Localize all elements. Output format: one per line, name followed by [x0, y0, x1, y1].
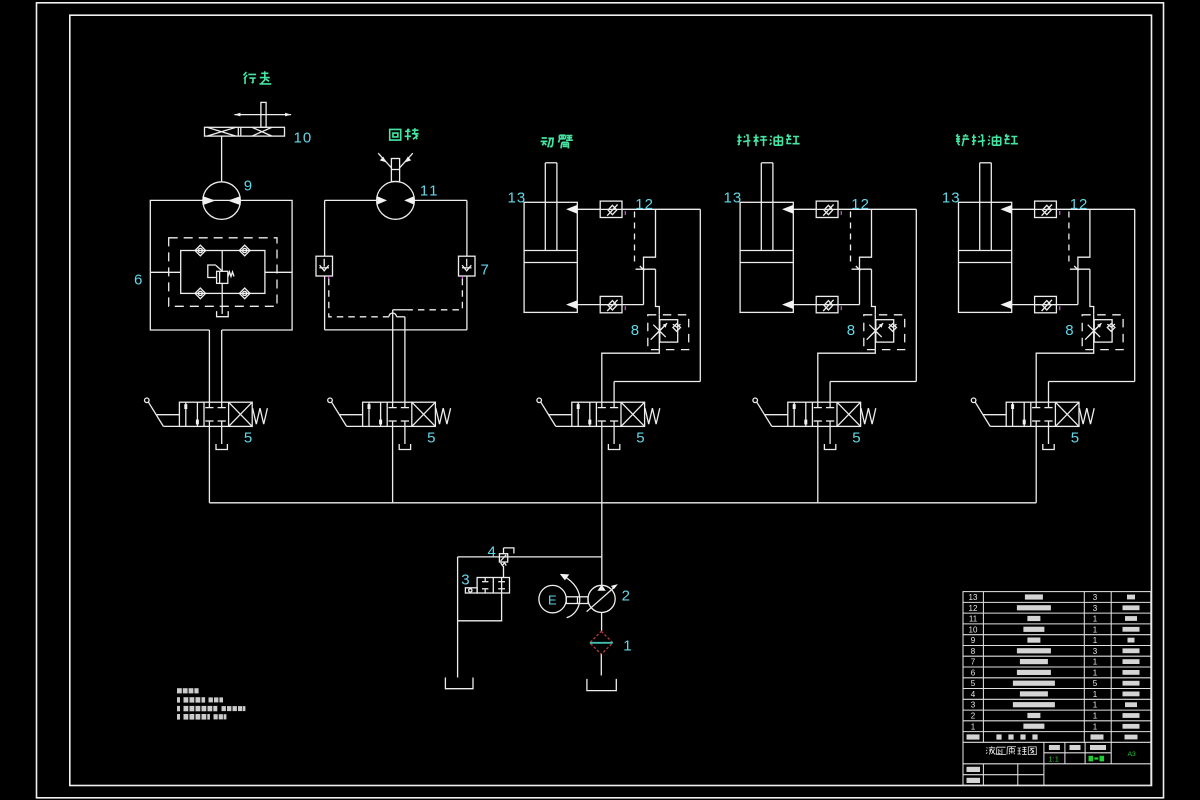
wires: loop to valve: [392, 310, 394, 402]
svg-text:6: 6: [971, 668, 976, 677]
wire: pump to filter: [601, 613, 603, 631]
tank main: [587, 679, 616, 691]
overflow valve right: [459, 256, 476, 276]
title block green marks: [1049, 751, 1137, 764]
svg-text:11: 11: [420, 182, 440, 199]
svg-text:7: 7: [481, 261, 489, 278]
swing motor 11: [377, 153, 415, 219]
svg-text:3: 3: [1093, 647, 1098, 656]
pilot relief valve 4: [499, 548, 514, 578]
title block name blobs: [967, 594, 1140, 783]
block 6 dashed enclosure: [169, 238, 277, 306]
svg-text:1: 1: [1093, 690, 1098, 699]
svg-text:E: E: [548, 593, 557, 608]
svg-text:8: 8: [971, 647, 976, 656]
svg-text:7: 7: [971, 658, 976, 667]
pilot valve 10: [205, 102, 292, 136]
filter 1: [590, 631, 613, 654]
svg-text:9: 9: [244, 177, 252, 194]
rotation arrow: [560, 574, 580, 618]
svg-text:1: 1: [1093, 636, 1098, 645]
section label: swing: [390, 128, 419, 140]
section label: travel: [244, 71, 272, 84]
svg-text:A3: A3: [1128, 751, 1137, 758]
block 6 inner circuit rect: [181, 251, 265, 294]
svg-text:1: 1: [1093, 625, 1098, 634]
svg-text:9: 9: [971, 636, 976, 645]
section label: arm cylinder: [737, 134, 799, 146]
svg-text:13: 13: [969, 593, 978, 602]
section label: bucket cylinder: [956, 134, 1018, 147]
overflow valve left: [316, 256, 333, 276]
shaft coupling: [566, 597, 588, 604]
svg-text:1: 1: [1093, 712, 1098, 721]
svg-text:1: 1: [1093, 701, 1098, 710]
svg-text:4: 4: [971, 690, 976, 699]
svg-text:6: 6: [134, 272, 142, 289]
swing loop block 7: [325, 200, 467, 330]
svg-text:1: 1: [1093, 668, 1098, 677]
block 6 side stubs: [150, 271, 180, 273]
svg-text:11: 11: [969, 615, 978, 624]
svg-text:5: 5: [1093, 679, 1098, 688]
svg-text:2: 2: [622, 588, 630, 605]
wire: valve 10 to motor 9: [221, 136, 223, 182]
svg-text:3: 3: [1093, 604, 1098, 613]
check valves in block 6: [195, 245, 206, 256]
svg-text:10: 10: [294, 129, 313, 146]
svg-text:1:1: 1:1: [1049, 754, 1059, 763]
svg-text:3: 3: [971, 701, 976, 710]
brake block 6 outline: [150, 200, 292, 330]
technical notes: [177, 688, 245, 719]
svg-text:3: 3: [1093, 593, 1098, 602]
pilot dashed right: [408, 279, 463, 310]
directional valve 5 swing: [328, 398, 451, 503]
pump 2: [587, 584, 618, 612]
svg-text:4: 4: [488, 544, 496, 561]
section label: boom: [541, 135, 573, 149]
svg-text:5: 5: [971, 679, 976, 688]
tank left: [445, 678, 473, 689]
svg-text:10: 10: [969, 625, 978, 634]
svg-text:1: 1: [1093, 722, 1098, 731]
wire: filter to tank: [600, 654, 602, 675]
svg-text:1: 1: [1093, 658, 1098, 667]
tank return line: [457, 557, 459, 678]
pressure bus: [209, 502, 1036, 504]
wire: bus to pump: [601, 503, 603, 586]
pilot dashed left: [329, 279, 389, 317]
svg-text:1: 1: [623, 637, 631, 654]
travel motor 9: [203, 182, 241, 220]
block 6 relief valve: [208, 251, 234, 317]
title block part numbers: [969, 593, 1098, 731]
svg-text:12: 12: [969, 604, 978, 613]
wire: valve 3 to tank line: [458, 593, 502, 621]
svg-text:2: 2: [971, 712, 976, 721]
drawing title strokes: [986, 746, 1036, 754]
magenta ticks: [328, 276, 330, 279]
unloading valve 3: [465, 578, 509, 594]
svg-text:3: 3: [461, 572, 469, 589]
svg-text:1: 1: [971, 722, 976, 731]
electric motor E: [539, 585, 566, 612]
wire: relief branch: [458, 556, 602, 558]
directional valve 5 travel: [145, 398, 268, 503]
wires: block 6 to valve: [208, 330, 210, 402]
svg-text:1: 1: [1093, 615, 1098, 624]
